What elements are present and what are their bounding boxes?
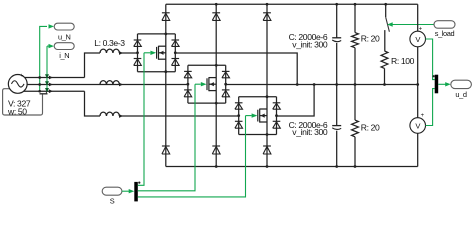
svg-text:v_init: 300: v_init: 300: [292, 39, 328, 49]
svg-text:+: +: [20, 73, 23, 79]
svg-text:u_d: u_d: [455, 90, 466, 99]
svg-text:w: 50: w: 50: [7, 107, 27, 117]
svg-text:s_load: s_load: [435, 29, 455, 38]
svg-text:L: 0.3e-3: L: 0.3e-3: [94, 38, 125, 48]
svg-text:i_N: i_N: [59, 51, 69, 60]
svg-text:R: 100: R: 100: [391, 56, 415, 66]
svg-text:R: 20: R: 20: [361, 122, 380, 132]
svg-text:R: 20: R: 20: [361, 33, 380, 43]
svg-text:u_N: u_N: [58, 32, 70, 41]
svg-text:v_init: 300: v_init: 300: [292, 127, 328, 137]
svg-text:S: S: [110, 197, 115, 206]
